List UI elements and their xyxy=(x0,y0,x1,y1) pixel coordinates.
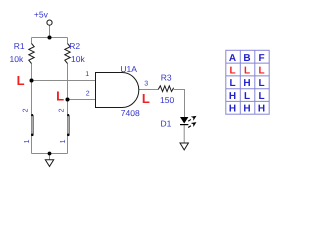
svg-text:A: A xyxy=(229,53,236,64)
svg-text:2: 2 xyxy=(59,108,66,112)
svg-text:L: L xyxy=(258,66,264,77)
svg-text:H: H xyxy=(243,103,250,114)
svg-text:10k: 10k xyxy=(71,54,85,64)
svg-text:L: L xyxy=(142,91,150,106)
svg-text:R1: R1 xyxy=(14,41,25,51)
svg-text:1: 1 xyxy=(85,71,89,78)
svg-text:L: L xyxy=(244,66,250,77)
svg-text:1: 1 xyxy=(60,139,67,143)
svg-text:R3: R3 xyxy=(161,73,172,83)
svg-text:L: L xyxy=(17,73,25,88)
svg-text:2: 2 xyxy=(23,108,30,112)
svg-text:U1A: U1A xyxy=(120,64,137,74)
svg-text:7408: 7408 xyxy=(121,108,140,118)
svg-text:L: L xyxy=(229,78,235,89)
svg-text:R2: R2 xyxy=(69,41,80,51)
svg-text:L: L xyxy=(229,66,235,77)
svg-text:F: F xyxy=(258,53,264,64)
svg-text:10k: 10k xyxy=(10,54,24,64)
svg-text:L: L xyxy=(258,91,264,102)
svg-text:150: 150 xyxy=(160,95,174,105)
svg-text:H: H xyxy=(258,103,265,114)
svg-text:H: H xyxy=(243,78,250,89)
svg-text:3: 3 xyxy=(144,81,148,88)
svg-text:1: 1 xyxy=(24,139,31,143)
svg-text:2: 2 xyxy=(86,91,90,98)
svg-text:H: H xyxy=(229,103,236,114)
svg-text:L: L xyxy=(244,91,250,102)
svg-text:L: L xyxy=(56,89,64,104)
svg-text:H: H xyxy=(229,91,236,102)
svg-text:L: L xyxy=(258,78,264,89)
svg-text:D1: D1 xyxy=(161,118,172,128)
svg-text:+5v: +5v xyxy=(34,9,49,19)
svg-text:B: B xyxy=(243,53,250,64)
